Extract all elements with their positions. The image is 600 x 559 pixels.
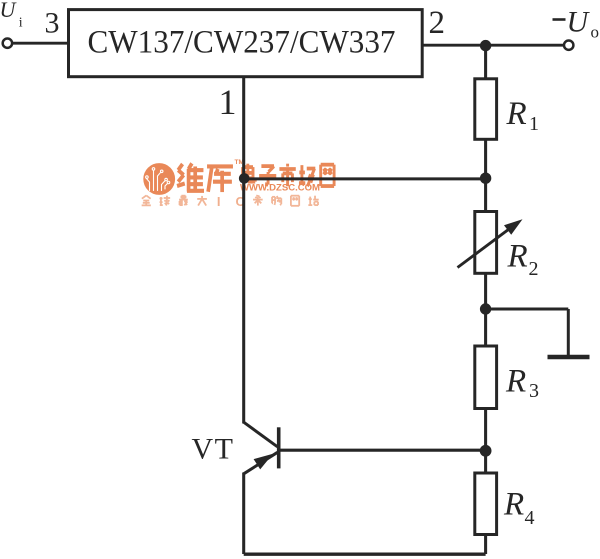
- svg-text:CW137/CW237/CW337: CW137/CW237/CW337: [88, 25, 396, 61]
- svg-text:R: R: [505, 364, 526, 400]
- svg-text:VT: VT: [192, 433, 235, 466]
- svg-text:2: 2: [429, 5, 446, 41]
- svg-text:i: i: [19, 15, 23, 30]
- svg-text:R: R: [506, 96, 527, 132]
- svg-text:1: 1: [219, 82, 237, 122]
- svg-text:WWW.DZSC.COM: WWW.DZSC.COM: [240, 183, 320, 193]
- svg-text:3: 3: [529, 380, 539, 402]
- svg-text:4: 4: [525, 507, 535, 529]
- svg-text:U: U: [0, 0, 18, 22]
- svg-text:o: o: [591, 23, 600, 42]
- svg-text:R: R: [507, 239, 528, 275]
- svg-text:3: 3: [45, 7, 60, 40]
- svg-text:I: I: [217, 194, 221, 209]
- svg-text:2: 2: [529, 258, 539, 280]
- svg-text:U: U: [567, 6, 591, 39]
- svg-text:R: R: [503, 487, 524, 523]
- svg-text:1: 1: [529, 113, 539, 135]
